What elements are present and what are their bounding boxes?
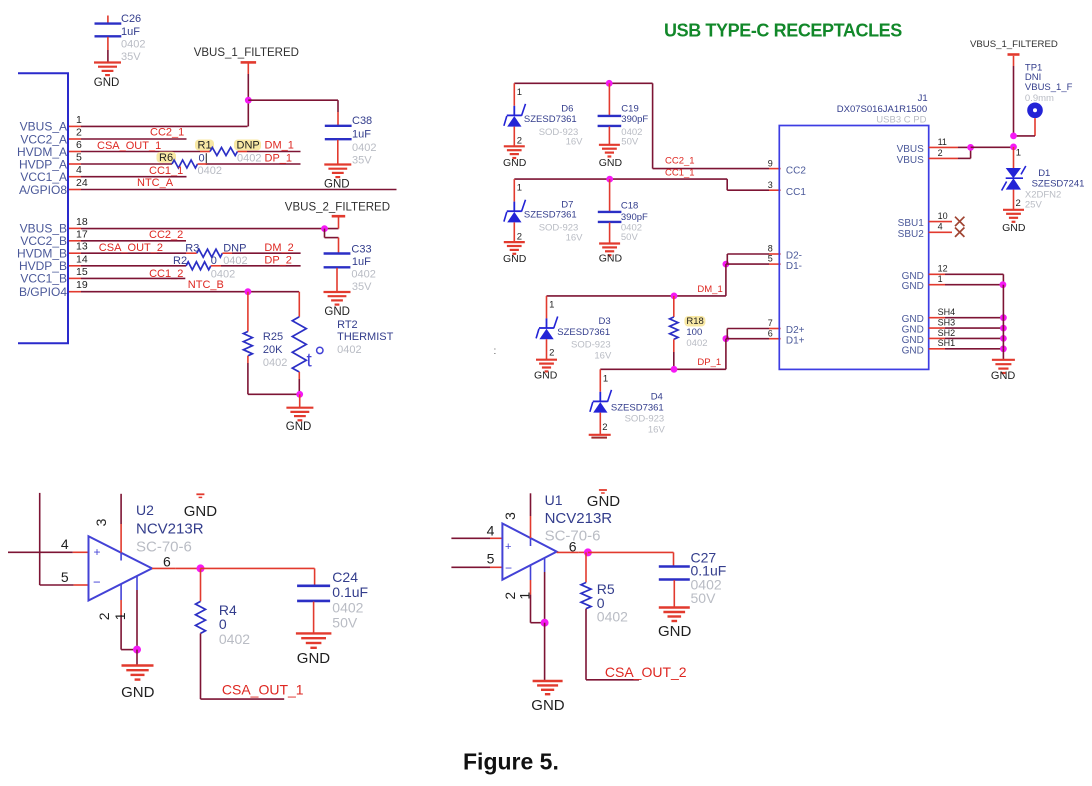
svg-text:t: t [307, 350, 313, 371]
svg-text:SZESD7361: SZESD7361 [524, 210, 577, 221]
op-amp U1 NCV213R [502, 524, 556, 580]
svg-text:C18: C18 [621, 201, 638, 212]
wire J1 SH3 GND [929, 327, 945, 329]
svg-text:1: 1 [76, 114, 82, 126]
wire A/GPIO8 pin24 / net NTC_A [81, 189, 397, 191]
svg-text:−: − [505, 561, 512, 575]
ground below C18 [599, 244, 620, 256]
svg-text:20K: 20K [263, 344, 283, 356]
svg-text:2: 2 [96, 612, 112, 620]
capacitor C24 [297, 586, 330, 601]
svg-text:SH1: SH1 [938, 338, 956, 348]
svg-text:0402: 0402 [352, 142, 376, 154]
svg-text:THERMIST: THERMIST [337, 331, 394, 343]
svg-text:15: 15 [76, 266, 88, 278]
svg-text:CC2_2: CC2_2 [149, 229, 183, 241]
svg-text:U1: U1 [545, 492, 563, 508]
svg-text:DM_2: DM_2 [264, 242, 293, 254]
thermistor RT2 [298, 292, 300, 317]
wire CC2_1 to J1 pin 9 [652, 83, 654, 168]
svg-text:1uF: 1uF [352, 256, 371, 268]
svg-text:1: 1 [938, 274, 943, 284]
svg-text:0: 0 [199, 152, 205, 164]
ground below C33 [324, 292, 351, 305]
svg-text:VCC1_B: VCC1_B [20, 272, 67, 286]
svg-text:C24: C24 [332, 569, 358, 585]
U2 pins 2 and 1 wires [120, 584, 122, 600]
svg-text:Figure 5.: Figure 5. [463, 748, 559, 774]
svg-text:0402: 0402 [337, 344, 361, 356]
ground below D6 [504, 146, 525, 158]
ground below C26 [94, 63, 121, 76]
wire D1 anode to ground [1013, 190, 1015, 210]
node U1 gnd junction [541, 619, 549, 627]
svg-text:D1-: D1- [786, 261, 802, 272]
wire U1 +input net [451, 537, 490, 539]
wire GND bus vertical [1002, 285, 1004, 349]
svg-text:0.1uF: 0.1uF [332, 584, 368, 600]
svg-text:D1: D1 [1038, 168, 1050, 179]
svg-text:0.9mm: 0.9mm [1025, 93, 1054, 104]
svg-text:+: + [505, 541, 511, 553]
svg-text:C33: C33 [351, 243, 371, 255]
svg-text:390pF: 390pF [621, 212, 648, 223]
svg-text:24: 24 [76, 177, 88, 189]
U2 output pin 6 wire [152, 567, 176, 569]
wire net DP_1 (A side) [198, 163, 208, 165]
svg-text:390pF: 390pF [621, 114, 648, 125]
svg-text:GND: GND [902, 314, 924, 325]
wire VBUS_A pin1 to VBUS_1_FILTERED node [81, 125, 248, 127]
resistor R25 [247, 292, 249, 332]
svg-text:0: 0 [219, 616, 227, 632]
power symbol VBUS_2_FILTERED [332, 215, 346, 218]
svg-text:0402: 0402 [686, 338, 707, 349]
power symbol VBUS_1_FILTERED (left) [247, 74, 249, 100]
svg-text:35V: 35V [121, 51, 141, 63]
svg-text:5: 5 [61, 569, 69, 585]
svg-text:C19: C19 [621, 104, 638, 115]
svg-text:SBU2: SBU2 [898, 229, 925, 240]
svg-text:DM_1: DM_1 [697, 284, 722, 295]
wire J1 pin8 stub [727, 253, 769, 255]
svg-text:6: 6 [569, 539, 577, 555]
svg-text:35V: 35V [352, 154, 372, 166]
svg-text:CC1: CC1 [786, 187, 806, 198]
svg-text:DM_1: DM_1 [265, 140, 294, 152]
ground below C27 [659, 608, 690, 622]
svg-text:A/GPIO8: A/GPIO8 [19, 183, 67, 197]
svg-text:R18: R18 [686, 316, 703, 327]
svg-text:CSA_OUT_1: CSA_OUT_1 [222, 682, 304, 698]
node SH3 junction [1000, 325, 1007, 332]
wire net DM_1 (middle) [547, 295, 726, 297]
svg-text:1: 1 [112, 612, 128, 620]
svg-text:13: 13 [76, 241, 88, 253]
svg-text:GND: GND [902, 271, 924, 282]
capacitor C38 [325, 126, 352, 139]
svg-text::: : [494, 346, 497, 357]
svg-text:50V: 50V [691, 590, 717, 606]
svg-text:NTC_A: NTC_A [137, 177, 174, 189]
node D6/C19 junction [606, 80, 613, 87]
svg-text:CSA_OUT_2: CSA_OUT_2 [99, 242, 163, 254]
op-amp U2 NCV213R [89, 536, 153, 600]
svg-text:1: 1 [603, 374, 608, 385]
wire U1 -input net [451, 566, 490, 568]
svg-text:2: 2 [549, 347, 554, 358]
resistor R6 [157, 152, 177, 163]
node SH4 junction [1000, 314, 1007, 321]
node VBUS pins junction [967, 144, 974, 151]
svg-text:17: 17 [76, 228, 88, 240]
svg-text:CSA_OUT_1: CSA_OUT_1 [97, 140, 161, 152]
capacitor C33 [324, 254, 351, 268]
wire TP1 to VBUS node [1034, 118, 1036, 136]
wire CC1_1 top net (D7/C18) [514, 178, 727, 180]
svg-text:50V: 50V [621, 232, 639, 243]
svg-text:3: 3 [93, 518, 109, 526]
svg-text:18: 18 [76, 216, 88, 228]
svg-text:35V: 35V [352, 281, 372, 293]
svg-text:CSA_OUT_2: CSA_OUT_2 [605, 664, 687, 680]
U2 pin 3 wire [120, 494, 122, 524]
svg-text:GND: GND [503, 157, 527, 169]
svg-text:GND: GND [902, 335, 924, 346]
svg-text:2: 2 [76, 127, 82, 139]
wire J1 SH2 GND [929, 337, 945, 339]
svg-text:SZESD7361: SZESD7361 [524, 114, 577, 125]
svg-text:2: 2 [938, 148, 943, 158]
svg-text:50V: 50V [332, 615, 358, 631]
svg-text:SOD-923: SOD-923 [571, 339, 611, 350]
svg-text:0402: 0402 [121, 38, 145, 50]
TVS diode D7 SZESD7361 [504, 179, 526, 222]
node TP1 junction [1010, 133, 1017, 140]
wire VBUS to D1 node [971, 146, 1014, 148]
wire net DM_1 (A side) [238, 151, 248, 153]
svg-text:GND: GND [587, 493, 621, 510]
svg-text:2: 2 [1016, 198, 1021, 209]
resistor R5 [585, 552, 587, 582]
wire net CSA_OUT_1 [201, 698, 285, 700]
ground below C19 [599, 145, 620, 157]
svg-text:GND: GND [902, 345, 924, 356]
wire HVDM_B pin13 / net CSA_OUT_2 [81, 252, 186, 254]
node U2 output junction [197, 564, 205, 572]
svg-text:C38: C38 [352, 115, 372, 127]
svg-text:DX07S016JA1R1500: DX07S016JA1R1500 [837, 104, 927, 115]
wire J1 pin12 GND [929, 273, 945, 275]
svg-text:SZESD7241: SZESD7241 [1032, 179, 1085, 190]
svg-text:2: 2 [602, 422, 607, 433]
svg-text:25V: 25V [1025, 200, 1043, 211]
test point TP1 [1027, 103, 1043, 119]
wire CC1_1 to J1 pin 3 [726, 179, 728, 190]
wire J1 SH4 GND [929, 317, 945, 319]
power bar above U1 GND [599, 490, 607, 493]
node VBUS_1_FILTERED junction [245, 97, 252, 104]
svg-text:6: 6 [76, 139, 82, 151]
svg-text:4: 4 [487, 522, 495, 538]
connector J1 DX07S016JA1R1500 body [779, 126, 928, 370]
svg-text:R2: R2 [173, 255, 187, 267]
svg-text:GND: GND [902, 281, 924, 292]
svg-text:J1: J1 [918, 93, 928, 104]
svg-text:R6: R6 [159, 152, 173, 164]
svg-text:14: 14 [76, 253, 88, 265]
svg-text:R25: R25 [263, 331, 283, 343]
node VBUS_2 junction [321, 225, 328, 232]
svg-text:−: − [93, 574, 101, 589]
svg-text:VBUS_1_F: VBUS_1_F [1025, 82, 1073, 93]
svg-text:+: + [94, 545, 101, 559]
svg-text:SH3: SH3 [938, 318, 956, 328]
wire U2 -input net [39, 493, 41, 585]
svg-text:9: 9 [768, 158, 773, 168]
ground below D7 [504, 242, 525, 254]
svg-text:SBU1: SBU1 [898, 218, 925, 229]
svg-text:D1+: D1+ [786, 335, 805, 346]
wire VCC1_B pin15 [81, 277, 185, 279]
node R25/RT2 bottom junction [296, 391, 303, 398]
svg-text:GND: GND [534, 369, 558, 381]
capacitor C26 [107, 16, 109, 24]
svg-text:50V: 50V [621, 137, 639, 148]
ground below C24 [296, 633, 332, 647]
svg-text:8: 8 [768, 244, 773, 254]
wire J1 pin11 VBUS [929, 146, 958, 148]
power bar above U2 GND [196, 494, 204, 497]
svg-text:DP_2: DP_2 [264, 255, 292, 267]
svg-text:2: 2 [517, 136, 522, 147]
svg-text:10: 10 [938, 211, 948, 221]
node NTC_B junction at R25 [245, 288, 252, 295]
svg-text:16V: 16V [566, 232, 584, 243]
wire net DP_1 (middle) [600, 368, 726, 370]
ground below R25/RT2 [299, 394, 301, 407]
wire HVDM_A pin6 / net CSA_OUT_1 [81, 151, 200, 153]
svg-text:SH4: SH4 [938, 307, 956, 317]
svg-text:DP_1: DP_1 [697, 357, 721, 368]
node D7/C18 junction [606, 176, 613, 183]
node GND pin1 junction [1000, 281, 1007, 288]
U1 pins 2 and 1 wires [530, 565, 532, 580]
svg-text:4: 4 [76, 164, 82, 176]
svg-text:5: 5 [76, 152, 82, 164]
capacitor C27 [659, 567, 690, 580]
svg-text:3: 3 [768, 180, 773, 190]
svg-text:DNP: DNP [237, 140, 260, 152]
svg-text:GND: GND [184, 503, 218, 520]
svg-text:GND: GND [121, 684, 155, 701]
svg-text:1: 1 [549, 299, 554, 310]
svg-text:GND: GND [503, 253, 527, 265]
wire net CSA_OUT_2 [586, 679, 639, 681]
wire VCC2_A pin2 / net CC2_1 [81, 138, 187, 140]
node U1 output junction [584, 548, 592, 556]
svg-text:CC1_1: CC1_1 [665, 168, 695, 179]
svg-text:GND: GND [991, 370, 1016, 382]
node D1 junction [1010, 144, 1017, 151]
svg-text:GND: GND [1002, 222, 1026, 234]
svg-text:6: 6 [163, 554, 171, 570]
svg-text:NCV213R: NCV213R [136, 520, 204, 537]
svg-text:0402: 0402 [263, 357, 287, 369]
wire J1 pin1 GND [929, 284, 945, 286]
ground below C38 [324, 165, 351, 178]
svg-text:1uF: 1uF [352, 129, 371, 141]
svg-text:0402: 0402 [198, 165, 222, 177]
no-connect X on SBU1 pin10 [929, 221, 952, 223]
svg-text:2: 2 [517, 231, 522, 242]
ground below D3 [536, 360, 557, 372]
svg-text:C26: C26 [121, 13, 141, 25]
capacitor C18 [609, 179, 611, 211]
wire net DM_2 [222, 252, 232, 254]
node U2 gnd junction [133, 646, 141, 654]
svg-text:DP_1: DP_1 [265, 153, 293, 165]
ground below D1 [1003, 210, 1024, 222]
node DP_1 to pin6 junction [723, 335, 730, 342]
svg-text:B/GPIO4: B/GPIO4 [19, 285, 67, 299]
svg-text:0402: 0402 [597, 609, 628, 625]
svg-text:GND: GND [531, 697, 565, 714]
TVS diode D4 SZESD7361 [590, 369, 612, 412]
wire J1 pin5 stub [726, 263, 769, 265]
wire jog from VBUS_2 node to C33 [324, 229, 326, 238]
connector left bracket (off-page A/B ports) [18, 73, 68, 343]
svg-text:GND: GND [599, 157, 623, 169]
svg-text:CC2_1: CC2_1 [665, 155, 695, 166]
U1 output pin 6 wire [557, 551, 579, 553]
wire HVDP_B pin14 / net CC1_2 [81, 265, 186, 267]
ground below U2 [136, 650, 138, 666]
svg-text:CC2: CC2 [786, 166, 806, 177]
resistor R18 [673, 296, 675, 317]
resistor R2 [186, 262, 211, 270]
ground below D4 (stub) [589, 435, 611, 438]
wire CC2_1 top net (D6/C19) [514, 82, 652, 84]
ground for J1 shield pins [992, 360, 1015, 373]
svg-text:SOD-923: SOD-923 [625, 414, 665, 425]
node DM_1/R18 junction [671, 293, 678, 300]
svg-text:GND: GND [297, 650, 331, 667]
svg-text:SH2: SH2 [938, 328, 956, 338]
wire J1 SH1 GND [929, 348, 945, 350]
svg-text:D7: D7 [561, 199, 573, 210]
resistor R4 [200, 568, 202, 601]
svg-text:R3: R3 [185, 242, 199, 254]
TVS diode D3 SZESD7361 [536, 296, 558, 339]
svg-text:D3: D3 [599, 316, 611, 327]
svg-text:GND: GND [599, 253, 623, 265]
svg-text:NTC_B: NTC_B [188, 279, 224, 291]
wire J1 pin2 VBUS [929, 157, 958, 159]
wire VCC1_A pin4 [81, 176, 187, 178]
wire R25 bottom to RT2 bottom [248, 393, 300, 395]
svg-text:VBUS: VBUS [897, 144, 925, 155]
wire net DP_2 [211, 265, 221, 267]
svg-text:VBUS_1_FILTERED: VBUS_1_FILTERED [194, 47, 299, 59]
svg-text:7: 7 [768, 318, 773, 328]
svg-text:U2: U2 [136, 502, 154, 518]
svg-text:CC2_1: CC2_1 [150, 127, 184, 139]
svg-text:VBUS_2_FILTERED: VBUS_2_FILTERED [285, 201, 390, 213]
svg-text:R1: R1 [198, 140, 212, 152]
svg-text:4: 4 [938, 222, 943, 232]
TVS diode D1 SZESD7241 (bidirectional) [1013, 147, 1015, 168]
svg-text:1: 1 [517, 183, 522, 194]
wire HVDP_A pin5 / net CC1_1 [81, 163, 172, 165]
svg-text:SZESD7361: SZESD7361 [557, 327, 610, 338]
svg-text:VBUS: VBUS [897, 155, 925, 166]
svg-text:1uF: 1uF [121, 26, 140, 38]
svg-text:100: 100 [686, 327, 702, 338]
U1 pin 3 wire [530, 493, 532, 516]
svg-text:NCV213R: NCV213R [545, 510, 613, 527]
ground below U1 [544, 623, 546, 681]
svg-text:GND: GND [94, 77, 120, 89]
svg-text:USB TYPE-C RECEPTACLES: USB TYPE-C RECEPTACLES [664, 21, 902, 41]
no-connect X on SBU2 pin4 [929, 231, 952, 233]
svg-text:RT2: RT2 [337, 319, 358, 331]
svg-text:1: 1 [516, 592, 532, 600]
svg-text:VBUS_1_FILTERED: VBUS_1_FILTERED [970, 39, 1058, 50]
TVS diode D6 SZESD7361 [504, 83, 526, 126]
wire VCC2_B pin17 / net CC2_2 [81, 240, 186, 242]
svg-text:11: 11 [938, 137, 947, 147]
wire J1 pin6 stub [726, 338, 769, 340]
svg-text:CC1_1: CC1_1 [149, 165, 183, 177]
node DM_1 to pin5 junction [723, 261, 730, 268]
svg-text:USB3 C PD: USB3 C PD [876, 115, 926, 126]
svg-text:0402: 0402 [237, 152, 261, 164]
node DP_1/R18 junction [671, 366, 678, 373]
svg-text:4: 4 [61, 536, 69, 552]
svg-text:12: 12 [938, 264, 948, 274]
wire B/GPIO4 pin19 / net NTC_B [81, 291, 299, 293]
svg-text:19: 19 [76, 279, 88, 291]
svg-text:5: 5 [487, 550, 495, 566]
wire U2 +input net [8, 551, 73, 553]
svg-text:GND: GND [286, 421, 312, 433]
svg-text:1: 1 [517, 87, 522, 98]
svg-text:6: 6 [768, 328, 773, 338]
resistor R1 (DNP) [195, 140, 214, 151]
svg-text:16V: 16V [566, 137, 584, 148]
node SH2 junction [1000, 335, 1007, 342]
svg-text:D4: D4 [651, 392, 663, 403]
svg-text:16V: 16V [594, 350, 612, 361]
svg-text:3: 3 [502, 512, 518, 520]
svg-text:SZESD7361: SZESD7361 [611, 403, 664, 414]
svg-text:D6: D6 [561, 104, 573, 115]
svg-text:0402: 0402 [351, 269, 375, 281]
wire U2 output to C24 [201, 567, 315, 569]
wire U1 output to C27 [588, 551, 674, 553]
svg-text:5: 5 [768, 254, 773, 264]
svg-text:GND: GND [658, 623, 692, 640]
svg-text:1: 1 [1016, 147, 1021, 158]
wire J1 pin7 stub [727, 328, 769, 330]
wire VBUS_1_FILTERED to C38 [248, 99, 338, 101]
svg-text:0402: 0402 [219, 631, 250, 647]
capacitor C19 [608, 83, 610, 115]
svg-text:0402: 0402 [332, 600, 363, 616]
svg-text:GND: GND [324, 306, 350, 318]
wire VBUS_B pin18 to VBUS_2_FILTERED node [81, 228, 339, 230]
